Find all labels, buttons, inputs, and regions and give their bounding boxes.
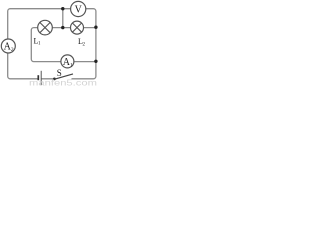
svg-text:S: S <box>57 68 62 78</box>
wire outer loop <box>8 9 96 79</box>
ammeter A2 <box>1 39 15 53</box>
label L2 <box>78 37 86 47</box>
svg-text:V: V <box>75 5 83 16</box>
svg-text:1: 1 <box>70 62 73 68</box>
label L1 <box>34 36 42 46</box>
lamp L2 <box>71 21 84 34</box>
voltmeter V <box>71 1 86 16</box>
lamp L1 <box>38 20 53 35</box>
battery <box>38 71 41 85</box>
wire lamp branch <box>31 28 96 62</box>
node right wire upper <box>94 26 97 29</box>
node lamp-branch junction <box>61 26 64 29</box>
switch S <box>53 74 73 80</box>
svg-text:2: 2 <box>11 47 14 53</box>
svg-text:manfen5.com: manfen5.com <box>29 79 97 88</box>
ammeter A1 <box>61 55 74 69</box>
node top junction <box>61 7 64 10</box>
node right wire lower <box>94 60 97 63</box>
wire voltmeter tap <box>62 9 64 28</box>
